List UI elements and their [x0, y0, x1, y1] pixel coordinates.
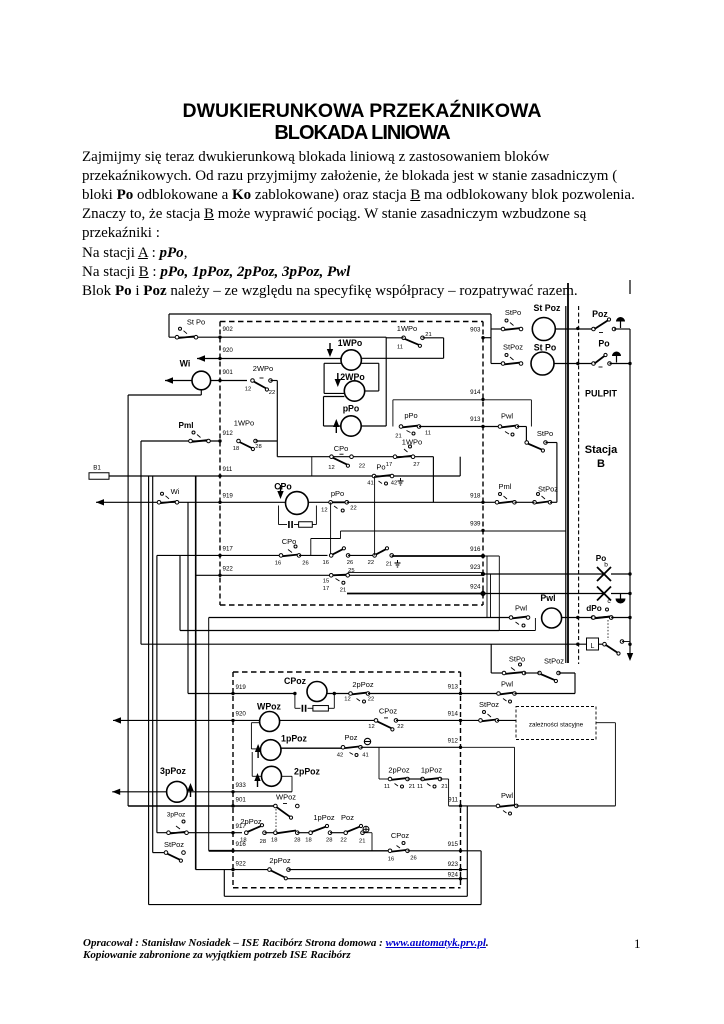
zaleznosci stacyjne box: [516, 707, 596, 740]
node 924: [459, 877, 462, 880]
wire CPo 12-22 row (456): [277, 456, 433, 458]
node 923: [459, 868, 462, 871]
svg-text:PULPIT: PULPIT: [585, 389, 618, 399]
svg-text:903: 903: [470, 327, 481, 334]
svg-text:Pwl: Pwl: [501, 791, 513, 800]
relay pPo with up arrow: [341, 416, 361, 436]
svg-text:26: 26: [302, 561, 308, 567]
wire 914 loop: [481, 398, 484, 401]
svg-text:915: 915: [448, 841, 459, 848]
svg-text:923: 923: [448, 861, 459, 868]
svg-text:1WPo: 1WPo: [338, 338, 363, 348]
contact 3pPoz: [167, 831, 171, 835]
svg-text:12: 12: [321, 508, 327, 514]
node 919: [218, 501, 221, 504]
wire 917 lower row contact chain: [157, 832, 242, 834]
svg-text:22: 22: [397, 724, 403, 730]
svg-text:21: 21: [340, 588, 346, 594]
node: [576, 643, 579, 646]
svg-text:21: 21: [425, 332, 431, 338]
svg-text:pPo: pPo: [343, 404, 360, 414]
wire feeder to 911 row: [311, 457, 313, 476]
contact Poz 22-21: [330, 832, 346, 834]
pulpit dashed line: [578, 306, 580, 664]
svg-text:StPo: StPo: [509, 655, 525, 664]
svg-text:StPoz: StPoz: [164, 840, 184, 849]
svg-text:21: 21: [395, 434, 401, 440]
contact pPo 12-22 on 919: [329, 501, 333, 505]
wire 933 row 3pPoz: [112, 789, 120, 795]
svg-text:1WPo: 1WPo: [397, 324, 417, 333]
svg-text:21: 21: [409, 784, 415, 790]
svg-text:15: 15: [323, 579, 329, 585]
relay 3pPoz: [167, 781, 188, 802]
svg-text:920: 920: [223, 347, 234, 354]
svg-text:1pPoz: 1pPoz: [281, 734, 308, 744]
wire 916 thick: [392, 555, 483, 557]
node 918: [481, 501, 484, 504]
contact Pwl-b: [496, 804, 500, 808]
svg-text:919: 919: [236, 684, 247, 691]
node 915: [459, 849, 462, 852]
ground dome: [616, 599, 626, 604]
coil loops WPoz-1pPoz-2pPoz: [251, 722, 259, 724]
svg-text:42: 42: [391, 481, 397, 487]
node 922: [231, 868, 234, 871]
contact 16-26 second: [329, 554, 333, 558]
relay 2WPo: [344, 381, 364, 401]
svg-text:Po: Po: [376, 463, 385, 472]
contact Pwl lower: [497, 692, 501, 696]
contact StPoz: [538, 671, 542, 675]
relay St Po: [531, 352, 554, 375]
wire feeder Po contact to 917 row: [374, 476, 376, 555]
svg-text:CPo: CPo: [274, 482, 292, 492]
svg-text:901: 901: [236, 797, 247, 804]
svg-text:Pwl: Pwl: [501, 680, 513, 689]
svg-text:21: 21: [386, 562, 392, 568]
svg-text:WPoz: WPoz: [257, 702, 282, 712]
svg-text:16: 16: [322, 560, 328, 566]
contact StPo feeding St Poz relay: [491, 328, 503, 330]
wire 924 lower row: [287, 878, 467, 880]
svg-text:B1: B1: [93, 465, 101, 472]
svg-text:26: 26: [410, 856, 416, 862]
contact 2pPoz 12-22 on 919: [349, 692, 353, 696]
contact 1WPo 18-28: [237, 439, 241, 443]
contact StPoz feeding St Po relay: [491, 363, 503, 365]
svg-text:CPoz: CPoz: [379, 707, 398, 716]
wire 912 Pml row: [141, 440, 220, 442]
svg-text:Pwl: Pwl: [515, 604, 527, 613]
svg-text:16: 16: [275, 561, 281, 567]
svg-text:StPoz: StPoz: [479, 700, 499, 709]
svg-text:901: 901: [223, 369, 234, 376]
svg-text:Stacja: Stacja: [585, 444, 618, 456]
svg-text:923: 923: [470, 564, 481, 571]
svg-text:Wi: Wi: [171, 487, 180, 496]
svg-text:L: L: [591, 643, 595, 650]
svg-text:28: 28: [255, 444, 261, 450]
relay WPoz: [260, 712, 280, 732]
svg-text:StPoz: StPoz: [538, 485, 558, 494]
node 912: [459, 746, 462, 749]
svg-text:zależności stacyjne: zależności stacyjne: [529, 722, 584, 729]
svg-text:12: 12: [344, 697, 350, 703]
contact Pml on 918: [483, 501, 497, 503]
svg-text:2pPoz: 2pPoz: [240, 817, 262, 826]
svg-text:11: 11: [417, 784, 423, 790]
node 911: [218, 474, 221, 477]
svg-text:18: 18: [233, 446, 239, 452]
svg-text:916: 916: [236, 841, 247, 848]
svg-text:StPoz: StPoz: [503, 343, 523, 352]
svg-text:913: 913: [470, 416, 481, 423]
node 920: [218, 357, 221, 360]
svg-text:22: 22: [269, 390, 275, 396]
node 933: [231, 790, 234, 793]
row StPo-StPoz chain (673): [490, 644, 492, 673]
wire 922-923 lower row: [196, 869, 269, 871]
wire 917 row: [157, 554, 220, 556]
svg-text:Poz: Poz: [592, 309, 608, 319]
contact 1pPoz 18-28: [309, 831, 313, 835]
svg-text:911: 911: [448, 797, 458, 804]
svg-text:3pPoz: 3pPoz: [167, 812, 185, 819]
svg-text:WPoz: WPoz: [276, 793, 296, 802]
contact StPo chain down: [525, 427, 527, 443]
PULPIT double separator line: [565, 306, 567, 663]
wire 919-913 lower row: [188, 693, 295, 695]
wire 911 lower row Pwl-b: [459, 804, 462, 807]
svg-text:St Po: St Po: [534, 343, 557, 353]
wire 916-915 lower row: [209, 850, 233, 852]
svg-text:1WPo: 1WPo: [234, 419, 254, 428]
relay 1WPo with down arrow: [341, 350, 361, 370]
wires from 916-923 down to Pwl row: [486, 556, 488, 618]
right rail arrow end: [627, 653, 633, 661]
middle row L (644.2): [141, 643, 587, 645]
wire 901 lower row WPoz transfer: [127, 805, 129, 807]
wire: [271, 380, 278, 382]
contact Pwl: [509, 616, 513, 620]
svg-text:Wi: Wi: [180, 359, 191, 369]
svg-text:2WPo: 2WPo: [253, 364, 273, 373]
svg-text:917: 917: [223, 546, 234, 553]
svg-text:41: 41: [367, 481, 373, 487]
svg-text:922: 922: [236, 861, 247, 868]
contact StPoz on 918: [533, 501, 537, 505]
svg-text:b: b: [604, 562, 608, 569]
svg-text:924: 924: [470, 584, 481, 591]
node 913: [459, 692, 462, 695]
node: [628, 362, 631, 365]
contact CPoz 16-26 on 915: [388, 849, 392, 853]
svg-text:2pPoz: 2pPoz: [388, 766, 410, 775]
svg-text:912: 912: [223, 430, 234, 437]
svg-text:16: 16: [388, 857, 394, 863]
dashed frame Poz block: [233, 671, 461, 673]
wire 902 extension to 1WPo contact: [220, 336, 386, 338]
svg-text:StPo: StPo: [537, 429, 553, 438]
svg-text:902: 902: [223, 326, 234, 333]
svg-text:22: 22: [368, 560, 374, 566]
svg-text:22: 22: [359, 464, 365, 470]
dashed frame Po block: [220, 321, 483, 323]
node 923: [481, 572, 485, 576]
middle row Pwl (617.5): [209, 617, 511, 619]
node 916: [231, 849, 234, 852]
contact Poz 42-41 with oplus: [341, 746, 345, 750]
svg-text:22: 22: [350, 506, 356, 512]
contact 1pPoz 11-21: [421, 777, 425, 781]
contact StPo: [502, 671, 506, 675]
contact CPoz 12-22 on 914: [374, 719, 378, 723]
svg-text:21: 21: [359, 839, 365, 845]
svg-text:2pPoz: 2pPoz: [269, 856, 291, 865]
wire feeder pPo to 917 row: [330, 502, 332, 556]
svg-text:CPoz: CPoz: [284, 676, 307, 686]
svg-text:919: 919: [223, 493, 234, 500]
node 902: [218, 336, 221, 339]
wire 920-914 lower row: [113, 717, 121, 723]
node 901: [218, 379, 221, 382]
node: [576, 362, 579, 365]
left long vertical wires: [127, 395, 129, 806]
svg-text:939: 939: [470, 521, 481, 528]
svg-text:913: 913: [448, 684, 459, 691]
svg-text:Pwl: Pwl: [501, 412, 513, 421]
RC snubber CPo: [278, 506, 280, 525]
svg-text:12: 12: [368, 724, 374, 730]
contact StPoz on 914: [479, 719, 483, 723]
middle row aux loop (630.5): [180, 630, 499, 632]
svg-text:914: 914: [470, 389, 481, 396]
contact dPo: [591, 616, 595, 620]
svg-text:916: 916: [470, 546, 481, 553]
relay Pwl: [542, 608, 562, 628]
svg-text:2pPoz: 2pPoz: [352, 680, 374, 689]
svg-text:26: 26: [347, 560, 353, 566]
svg-text:920: 920: [236, 711, 247, 718]
node 916: [481, 554, 485, 558]
contact 1WPo 17-27: [393, 455, 397, 459]
node 912: [218, 439, 221, 442]
node 922: [218, 574, 221, 577]
svg-text:28: 28: [294, 838, 300, 844]
bottom right box wires: [461, 805, 468, 807]
svg-text:11: 11: [384, 784, 390, 790]
transfer contact WPoz: [274, 804, 278, 808]
X contact Po-c row 924 extension: [483, 593, 604, 595]
contact at L: [603, 642, 607, 646]
wire 924 thick row: [347, 593, 483, 595]
outer frame top-left of Po block: [169, 313, 491, 315]
svg-text:924: 924: [448, 872, 459, 879]
node: [576, 616, 579, 619]
svg-text:22: 22: [340, 838, 346, 844]
node 914: [459, 719, 462, 722]
svg-text:27: 27: [413, 462, 419, 468]
relay 2pPoz: [262, 766, 282, 786]
relay Wi: [192, 371, 211, 390]
svg-text:12: 12: [328, 465, 334, 471]
svg-text:CPoz: CPoz: [391, 831, 410, 840]
svg-text:StPo: StPo: [505, 308, 521, 317]
svg-text:28: 28: [326, 838, 332, 844]
node 924: [480, 590, 487, 597]
svg-text:911: 911: [223, 466, 233, 473]
wire 939 row: [481, 529, 484, 532]
contact Wi: [157, 501, 161, 505]
svg-text:42: 42: [337, 753, 343, 759]
svg-text:25: 25: [348, 568, 354, 574]
svg-text:22: 22: [368, 697, 374, 703]
svg-text:12: 12: [245, 387, 251, 393]
node 920: [231, 719, 234, 722]
relay CPoz with RC: [293, 692, 296, 695]
transfer contact WPoz 18-28: [274, 831, 278, 835]
svg-text:28: 28: [260, 839, 266, 845]
contact Pml: [189, 439, 193, 443]
svg-text:1pPoz: 1pPoz: [313, 813, 335, 822]
svg-text:17: 17: [323, 586, 329, 592]
node 919: [231, 692, 234, 695]
svg-text:912: 912: [448, 738, 459, 745]
L box: [587, 638, 599, 650]
svg-text:dPo: dPo: [586, 604, 601, 613]
svg-text:2WPo: 2WPo: [340, 372, 365, 382]
svg-text:18: 18: [305, 838, 311, 844]
Wi return wire: [200, 390, 202, 395]
wire 920 with left arrow: [197, 355, 205, 361]
svg-text:CPo: CPo: [334, 444, 349, 453]
svg-text:41: 41: [362, 753, 368, 759]
svg-text:11: 11: [425, 431, 431, 437]
svg-text:918: 918: [470, 493, 481, 500]
svg-text:1WPo: 1WPo: [402, 438, 422, 447]
svg-text:pPo: pPo: [404, 411, 417, 420]
relay CPo with down arrow and RC: [220, 501, 286, 503]
svg-text:2pPoz: 2pPoz: [294, 767, 321, 777]
relay St Poz: [532, 318, 555, 341]
wire 913 row pPo contact: [361, 425, 386, 427]
wire 912 lower row 1pPoz-Poz: [281, 747, 343, 749]
node 917: [218, 554, 221, 557]
relay contact St Po (902 row): [169, 336, 220, 338]
contact 2pPoz arm to 924: [268, 868, 272, 872]
svg-text:Pml: Pml: [178, 421, 193, 430]
svg-text:pPo: pPo: [331, 489, 344, 498]
contact StPoz lower-left: [153, 852, 166, 854]
svg-text:1pPoz: 1pPoz: [421, 766, 443, 775]
svg-text:Po: Po: [598, 339, 610, 349]
svg-text:922: 922: [223, 566, 234, 573]
svg-text:Poz: Poz: [345, 733, 358, 742]
svg-text:3pPoz: 3pPoz: [160, 766, 187, 776]
contact 2WPo 12-22: [251, 379, 255, 383]
svg-text:914: 914: [448, 711, 459, 718]
contact 1WPo 21-11 (903): [402, 336, 406, 340]
X contact Po-b row 923 extension: [483, 573, 604, 575]
contact Pwl on 913: [483, 426, 500, 428]
node 913: [481, 425, 484, 428]
svg-text:11: 11: [397, 345, 403, 351]
contact 2pPoz 18-28: [245, 831, 249, 835]
svg-text:St Po: St Po: [187, 318, 205, 327]
wire 919 CPo coil row: [96, 499, 104, 505]
node 917: [231, 831, 234, 834]
svg-text:Pwl: Pwl: [540, 593, 555, 603]
svg-text:21: 21: [441, 784, 447, 790]
svg-text:B: B: [597, 458, 605, 470]
svg-text:Poz: Poz: [341, 813, 354, 822]
svg-text:CPo: CPo: [282, 537, 297, 546]
contact 15-17-25: [329, 574, 333, 578]
node 903: [481, 336, 484, 339]
wire 922-923 row: [196, 574, 220, 576]
node: [576, 327, 579, 330]
relay 1pPoz: [260, 740, 281, 761]
node 901: [231, 804, 234, 807]
contact CPo 16-26: [220, 554, 281, 556]
svg-text:St Poz: St Poz: [534, 303, 561, 313]
contact 22-21: [373, 554, 377, 558]
wire 901 Wi row: [165, 377, 173, 383]
wire 11-21 contact row (779): [378, 747, 380, 779]
wire to right rail: [629, 329, 631, 657]
svg-text:17: 17: [386, 462, 392, 468]
coil loop 1WPo-2WPo: [324, 362, 341, 364]
svg-text:18: 18: [271, 838, 277, 844]
svg-text:Pml: Pml: [499, 482, 512, 491]
svg-text:933: 933: [236, 782, 247, 789]
contact 2pPoz 11-21: [388, 777, 392, 781]
svg-text:StPoz: StPoz: [544, 657, 564, 666]
contact Po 41-42 with ground: [372, 474, 376, 478]
